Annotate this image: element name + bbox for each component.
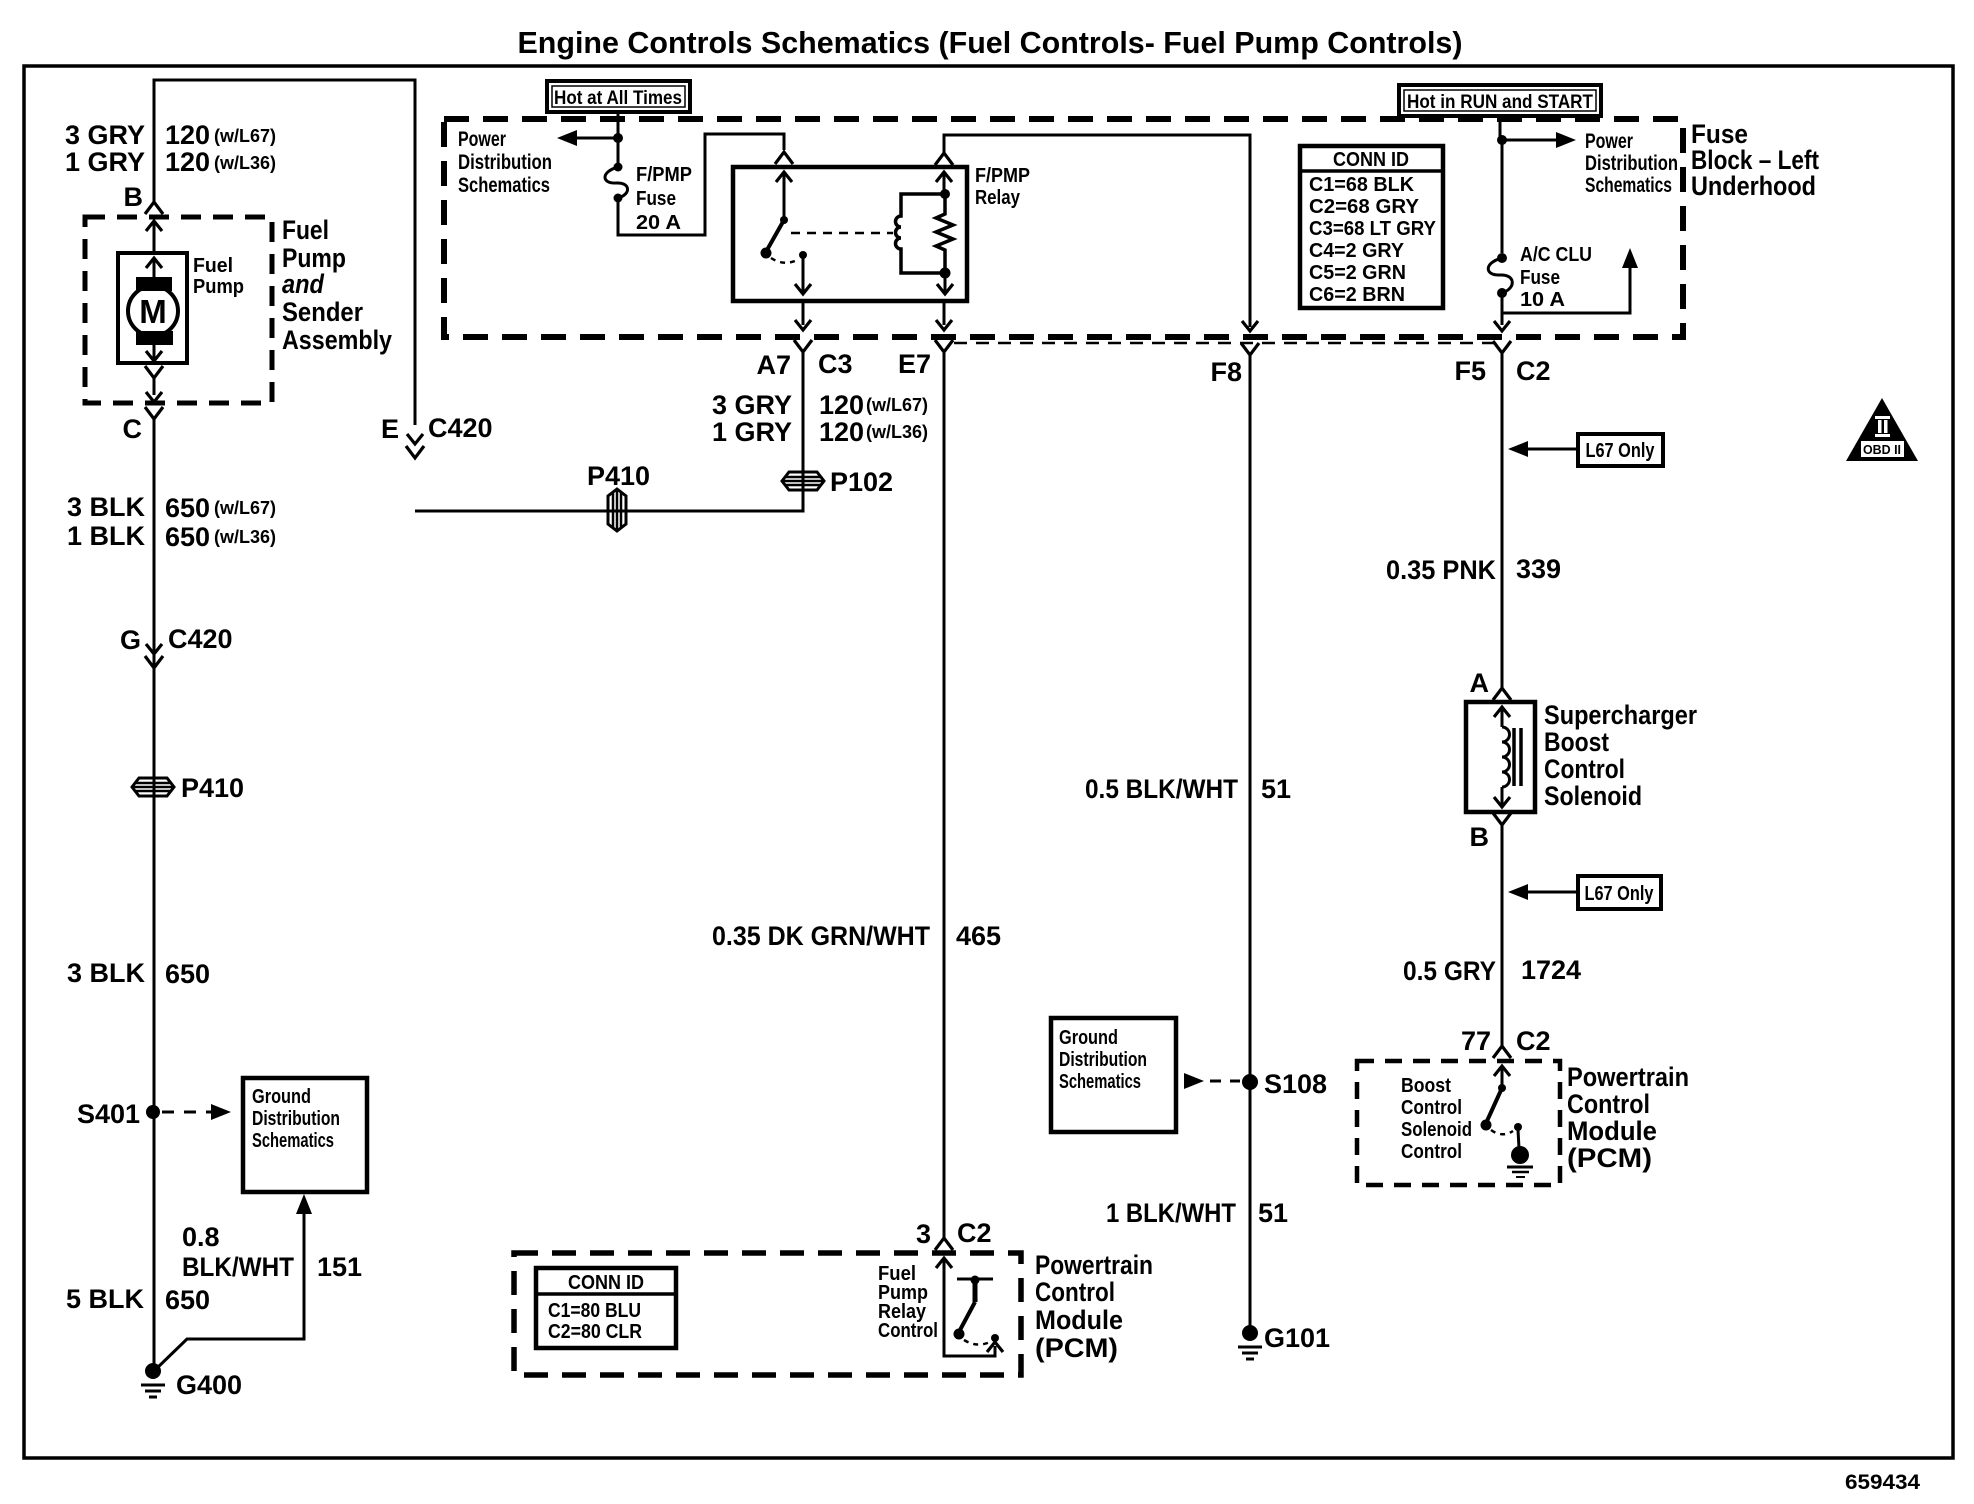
svg-text:C2: C2	[1516, 1026, 1551, 1056]
wire: F5 to solenoid A	[1501, 353, 1504, 688]
svg-text:339: 339	[1516, 554, 1561, 584]
relay mechanical dashed link	[791, 232, 893, 235]
svg-text:0.35 DK GRN/WHT: 0.35 DK GRN/WHT	[712, 921, 930, 951]
supercharger boost control solenoid	[1466, 702, 1535, 812]
svg-text:3: 3	[916, 1219, 931, 1249]
label 3 BLK 650	[67, 958, 210, 989]
label 0.5 GRY 1724	[1403, 955, 1581, 986]
connector F8 pin arrow and fork	[1210, 321, 1259, 387]
svg-text:Module: Module	[1035, 1305, 1123, 1335]
svg-text:(PCM): (PCM)	[1567, 1143, 1652, 1173]
svg-text:CONN ID: CONN ID	[568, 1272, 644, 1294]
fork into relay pole pin	[775, 152, 793, 164]
boost driver switch	[1481, 1066, 1534, 1177]
label power distribution schematics (right)	[1585, 130, 1678, 197]
label 0.8 BLK/WHT 151	[182, 1222, 362, 1282]
svg-text:G400: G400	[176, 1370, 242, 1400]
svg-text:B: B	[124, 182, 144, 212]
svg-text:Assembly: Assembly	[282, 325, 392, 355]
svg-text:77: 77	[1461, 1026, 1491, 1056]
svg-text:F8: F8	[1210, 357, 1242, 387]
svg-text:Engine Controls Schematics (Fu: Engine Controls Schematics (Fuel Control…	[518, 25, 1463, 60]
splice S108	[1242, 1069, 1327, 1099]
connector 77 C2 fork	[1461, 1026, 1551, 1058]
label 1 GRY 120 (w/L36) at A7	[712, 417, 928, 447]
svg-text:M: M	[139, 293, 167, 330]
svg-text:S401: S401	[77, 1099, 140, 1129]
connector B fork	[1470, 813, 1512, 852]
svg-text:Control: Control	[1567, 1089, 1650, 1119]
svg-text:C420: C420	[168, 624, 233, 654]
svg-text:Schematics: Schematics	[252, 1130, 334, 1152]
svg-text:1 GRY: 1 GRY	[65, 147, 145, 177]
svg-text:151: 151	[317, 1252, 362, 1282]
svg-text:CONN ID: CONN ID	[1333, 149, 1409, 171]
svg-text:C2: C2	[957, 1218, 992, 1248]
svg-text:1 BLK/WHT: 1 BLK/WHT	[1106, 1198, 1236, 1228]
connector F5 C2 fork	[1454, 341, 1550, 386]
label 0.35 DK GRN/WHT 465	[712, 921, 1001, 951]
svg-text:Fuel: Fuel	[193, 255, 233, 277]
L67 only box 1	[1508, 434, 1663, 466]
dashed link S401 to ground distribution schematics	[162, 1104, 231, 1120]
svg-text:1 BLK: 1 BLK	[67, 521, 146, 551]
svg-text:(w/L67): (w/L67)	[214, 126, 276, 146]
splice S401	[77, 1099, 160, 1129]
svg-text:Boost: Boost	[1544, 727, 1609, 757]
pcm dashed box	[514, 1253, 1021, 1375]
fuel pump motor M1	[118, 253, 187, 363]
label 1 BLK/WHT 51	[1106, 1198, 1288, 1228]
connector E C420	[381, 413, 493, 458]
svg-text:Ground: Ground	[1059, 1027, 1118, 1049]
svg-text:Control: Control	[1401, 1097, 1462, 1119]
label powertrain control module (right)	[1567, 1062, 1689, 1173]
svg-text:C2: C2	[1516, 356, 1551, 386]
svg-text:C3=68 LT GRY: C3=68 LT GRY	[1309, 218, 1437, 240]
svg-text:Sender: Sender	[282, 297, 363, 327]
svg-text:(w/L67): (w/L67)	[866, 395, 928, 415]
label 1 BLK 650 (w/L36)	[67, 521, 276, 552]
svg-text:P102: P102	[830, 467, 893, 497]
svg-text:Control: Control	[878, 1320, 938, 1342]
svg-text:Schematics: Schematics	[1059, 1071, 1141, 1093]
wire: fuse branch to other circuits	[1502, 248, 1638, 313]
conn id table (pcm)	[536, 1268, 676, 1348]
label 0.35 PNK 339	[1386, 554, 1561, 585]
ground G400	[141, 1363, 242, 1400]
svg-text:C420: C420	[428, 413, 493, 443]
dashed link to S108	[1184, 1073, 1240, 1089]
wire: fuel pump feed loop top	[154, 80, 415, 425]
svg-text:C3: C3	[818, 349, 853, 379]
svg-text:659434: 659434	[1845, 1471, 1920, 1494]
connector A fork	[1470, 668, 1512, 700]
svg-text:Distribution: Distribution	[1585, 152, 1678, 175]
label powertrain control module (bottom)	[1035, 1250, 1153, 1363]
svg-text:120: 120	[165, 147, 210, 177]
svg-text:Hot in RUN and START: Hot in RUN and START	[1407, 92, 1593, 113]
svg-text:Powertrain: Powertrain	[1035, 1250, 1153, 1280]
hot in run and start label box	[1399, 85, 1601, 116]
svg-text:C1=80 BLU: C1=80 BLU	[548, 1300, 641, 1322]
svg-text:C1=68 BLK: C1=68 BLK	[1309, 174, 1415, 196]
svg-text:0.8: 0.8	[182, 1222, 220, 1252]
wire: main left ground wire	[153, 419, 156, 1372]
wire: F8 to S108 and G101	[1249, 355, 1252, 1333]
svg-text:OBD II: OBD II	[1863, 442, 1901, 457]
label 3 GRY 120 (w/L67) at A7	[712, 390, 928, 420]
label fuse block left underhood	[1691, 119, 1819, 201]
conn id table (fuse block)	[1300, 146, 1443, 308]
svg-text:C: C	[123, 414, 143, 444]
svg-text:E: E	[381, 414, 399, 444]
svg-text:1 GRY: 1 GRY	[712, 417, 792, 447]
svg-text:(w/L36): (w/L36)	[214, 153, 276, 173]
svg-text:L67 Only: L67 Only	[1585, 883, 1655, 905]
svg-text:120: 120	[819, 390, 864, 420]
svg-text:P410: P410	[181, 773, 244, 803]
svg-text:Ground: Ground	[252, 1086, 311, 1108]
svg-text:B: B	[1470, 822, 1490, 852]
wire: fuse down to F5	[1494, 293, 1510, 331]
svg-text:Power: Power	[1585, 130, 1633, 153]
svg-text:Power: Power	[458, 128, 506, 151]
arrow to power distribution schematics	[557, 130, 618, 146]
svg-text:3 BLK: 3 BLK	[67, 958, 146, 988]
label power distribution schematics (left)	[458, 128, 552, 197]
svg-text:G101: G101	[1264, 1323, 1330, 1353]
svg-text:Distribution: Distribution	[458, 151, 552, 174]
svg-text:51: 51	[1261, 774, 1291, 804]
svg-text:E7: E7	[898, 349, 931, 379]
svg-text:Control: Control	[1035, 1277, 1115, 1307]
label Fuel Pump and Sender Assembly	[282, 215, 392, 355]
fuel pump relay driver switch	[936, 1258, 1003, 1356]
inline connector P410 (horizontal wire)	[587, 461, 650, 531]
svg-text:A: A	[1470, 668, 1490, 698]
connector B pin arrow	[146, 221, 162, 253]
wire: hot feed into fuse	[617, 112, 620, 165]
svg-text:3 GRY: 3 GRY	[65, 120, 145, 150]
connector G C420	[120, 624, 233, 668]
svg-text:Distribution: Distribution	[1059, 1049, 1147, 1071]
inline connector P410 (left wire)	[132, 773, 244, 803]
pcm boost dashed box	[1357, 1061, 1560, 1185]
svg-text:3 BLK: 3 BLK	[67, 492, 146, 522]
svg-text:Control: Control	[1544, 754, 1625, 784]
svg-text:120: 120	[819, 417, 864, 447]
svg-text:A7: A7	[756, 350, 791, 380]
svg-text:BLK/WHT: BLK/WHT	[182, 1252, 294, 1282]
label 3 BLK 650 (w/L67)	[67, 492, 276, 523]
wire: E7 to PCM fuel pump relay control	[943, 352, 946, 1238]
svg-text:20 A: 20 A	[636, 212, 681, 234]
svg-text:Hot at All Times: Hot at All Times	[554, 88, 682, 109]
obd ii triangle	[1846, 398, 1918, 461]
svg-text:P410: P410	[587, 461, 650, 491]
relay switch	[761, 172, 812, 294]
label 0.5 BLK/WHT 51	[1085, 774, 1291, 804]
svg-text:Fuse: Fuse	[1520, 267, 1560, 289]
svg-text:(w/L36): (w/L36)	[214, 527, 276, 547]
wire: A7 down through P102 to pump feed	[415, 352, 803, 511]
svg-text:C5=2 GRN: C5=2 GRN	[1309, 262, 1406, 284]
svg-text:Relay: Relay	[975, 187, 1021, 209]
svg-text:Pump: Pump	[193, 276, 244, 298]
svg-text:Solenoid: Solenoid	[1544, 781, 1642, 811]
drawing number	[1845, 1471, 1920, 1494]
relay coil and resistor	[896, 189, 953, 294]
node to power distribution arrow	[1497, 132, 1576, 148]
svg-text:465: 465	[956, 921, 1001, 951]
svg-text:Distribution: Distribution	[252, 1108, 340, 1130]
fuse A/C CLU 10A	[1488, 244, 1592, 311]
svg-text:L67 Only: L67 Only	[1586, 440, 1656, 462]
connector B fork	[145, 202, 163, 214]
svg-text:Powertrain: Powertrain	[1567, 1062, 1689, 1092]
svg-text:650: 650	[165, 493, 210, 523]
svg-text:Module: Module	[1567, 1116, 1657, 1146]
ground distribution schematics box (left)	[243, 1078, 367, 1192]
svg-text:51: 51	[1258, 1198, 1288, 1228]
svg-text:0.5 GRY: 0.5 GRY	[1403, 956, 1496, 986]
label fuel pump relay control	[878, 1263, 938, 1342]
svg-text:F/PMP: F/PMP	[636, 164, 692, 186]
svg-text:S108: S108	[1264, 1069, 1327, 1099]
svg-text:Underhood: Underhood	[1691, 171, 1816, 201]
svg-text:F5: F5	[1454, 356, 1486, 386]
svg-text:(w/L67): (w/L67)	[214, 498, 276, 518]
relay pin A7 lead below box	[795, 301, 811, 330]
inline connector P102	[782, 467, 893, 497]
svg-text:C2=80 CLR: C2=80 CLR	[548, 1321, 642, 1343]
power distribution dashed box	[444, 119, 1683, 337]
hot at all times label box	[547, 81, 690, 112]
svg-text:3 GRY: 3 GRY	[712, 390, 792, 420]
svg-text:Schematics: Schematics	[1585, 174, 1672, 197]
svg-text:F/PMP: F/PMP	[975, 165, 1030, 187]
connector A7 C3 fork	[756, 340, 852, 380]
svg-text:0.35 PNK: 0.35 PNK	[1386, 555, 1496, 585]
thin dashed connector face line	[954, 342, 1494, 345]
svg-text:1724: 1724	[1521, 955, 1581, 985]
ground G101	[1238, 1323, 1330, 1359]
svg-text:Boost: Boost	[1401, 1075, 1451, 1097]
svg-text:C2=68 GRY: C2=68 GRY	[1309, 196, 1420, 218]
svg-text:C4=2 GRY: C4=2 GRY	[1309, 240, 1405, 262]
label Fuel Pump (inside box)	[193, 255, 244, 298]
F/PMP relay box	[733, 165, 1030, 301]
svg-text:(w/L36): (w/L36)	[866, 422, 928, 442]
svg-text:5 BLK: 5 BLK	[66, 1284, 145, 1314]
svg-text:(PCM): (PCM)	[1035, 1333, 1118, 1363]
svg-text:10 A: 10 A	[1520, 289, 1565, 311]
motor-to-boundary fork and pin	[145, 366, 163, 402]
label boost control solenoid control	[1401, 1075, 1472, 1163]
svg-text:G: G	[120, 625, 141, 655]
svg-text:Supercharger: Supercharger	[1544, 700, 1697, 730]
label 1 GRY 120 (w/L36)	[65, 147, 276, 177]
svg-text:120: 120	[165, 120, 210, 150]
label supercharger boost control solenoid	[1544, 700, 1697, 811]
node at fuse top	[613, 133, 623, 143]
label 5 BLK 650	[66, 1284, 210, 1315]
ground distribution schematics box (right)	[1051, 1018, 1176, 1132]
fuse F/PMP 20A	[605, 163, 692, 235]
svg-text:Control: Control	[1401, 1141, 1462, 1163]
wire: fuse to relay pole	[618, 134, 784, 235]
svg-text:Solenoid: Solenoid	[1401, 1119, 1472, 1141]
svg-text:650: 650	[165, 1285, 210, 1315]
fuel pump and sender assembly dashed box	[85, 217, 272, 403]
svg-text:Schematics: Schematics	[458, 174, 550, 197]
svg-text:Fuse: Fuse	[636, 188, 676, 210]
label 3 GRY 120 (w/L67)	[65, 120, 276, 150]
L67 only box 2	[1508, 876, 1661, 909]
svg-text:650: 650	[165, 522, 210, 552]
svg-text:and: and	[282, 269, 324, 299]
wire: solenoid B to PCM 77	[1501, 825, 1504, 1046]
svg-text:0.5 BLK/WHT: 0.5 BLK/WHT	[1085, 774, 1238, 804]
wire: run/start feed	[1500, 116, 1502, 253]
wire: relay coil pin up to F8 feed	[935, 135, 1250, 327]
connector 3 C2 fork	[916, 1218, 992, 1250]
node B label	[124, 182, 144, 212]
svg-text:C6=2 BRN: C6=2 BRN	[1309, 284, 1405, 306]
wire: ground dist box to G400	[155, 1194, 312, 1370]
connector E7 fork	[898, 340, 953, 379]
connector C fork	[123, 407, 164, 444]
svg-text:Fuel: Fuel	[282, 215, 329, 245]
svg-text:A/C CLU: A/C CLU	[1520, 244, 1592, 266]
relay pin E7 lead below box	[936, 301, 952, 330]
svg-text:650: 650	[165, 959, 210, 989]
